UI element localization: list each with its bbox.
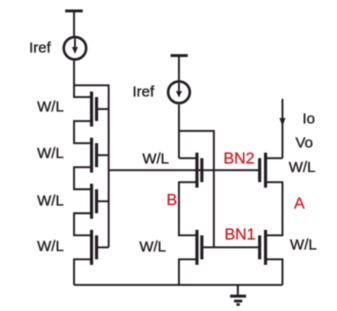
svg-text:BN1: BN1 [224, 226, 255, 243]
svg-text:W/L: W/L [142, 150, 169, 167]
svg-text:Iref: Iref [29, 39, 52, 56]
svg-text:W/L: W/L [37, 192, 64, 209]
svg-text:A: A [294, 195, 305, 212]
svg-text:W/L: W/L [289, 159, 316, 176]
svg-text:Vo: Vo [295, 134, 313, 151]
svg-text:B: B [166, 192, 177, 209]
svg-text:W/L: W/L [290, 237, 317, 254]
svg-text:W/L: W/L [37, 238, 64, 255]
svg-text:Iref: Iref [132, 83, 155, 100]
svg-text:W/L: W/L [139, 239, 166, 256]
svg-text:Io: Io [302, 110, 315, 127]
svg-text:W/L: W/L [37, 145, 64, 162]
svg-text:W/L: W/L [37, 99, 64, 116]
svg-text:BN2: BN2 [223, 150, 254, 167]
